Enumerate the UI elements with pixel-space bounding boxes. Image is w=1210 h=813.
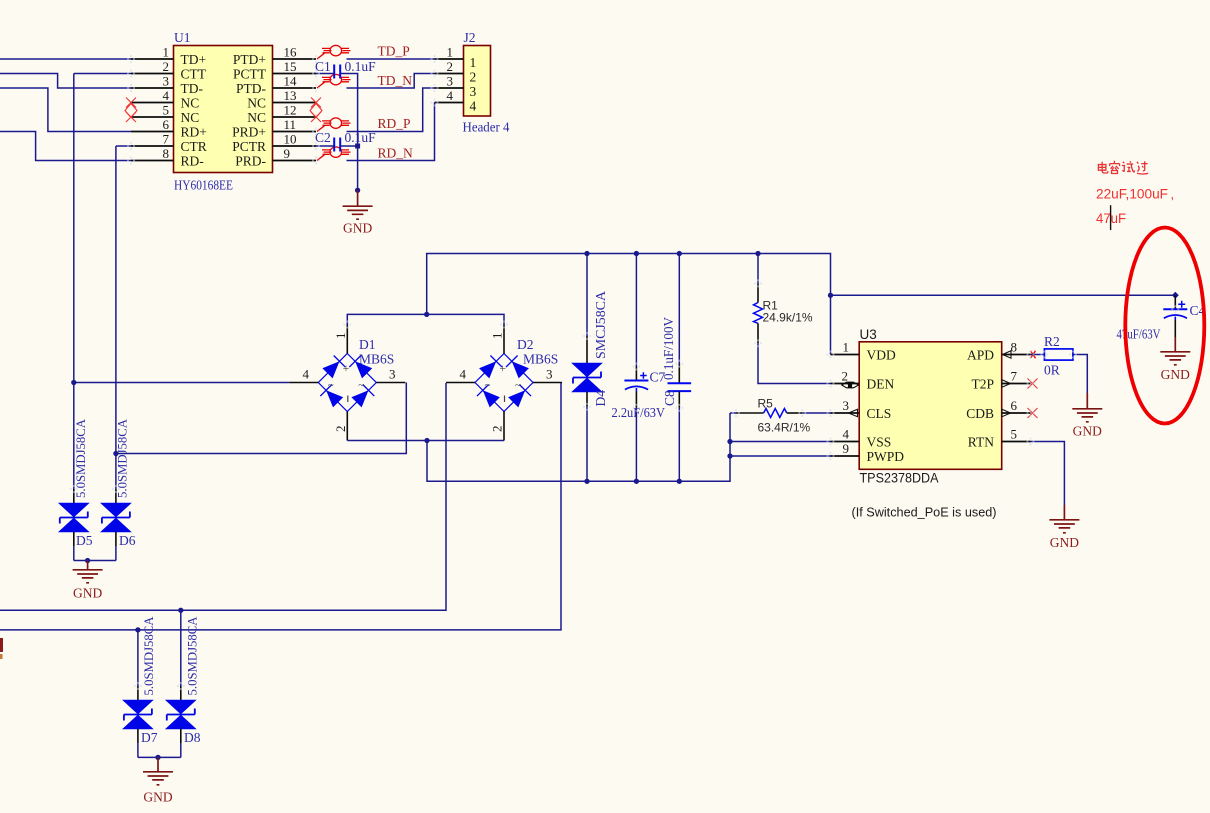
svg-text:NC: NC [247, 95, 266, 110]
ferrite jumper on TD_N line [317, 74, 351, 88]
svg-text:GND: GND [1073, 424, 1102, 439]
connector J2 body [464, 46, 491, 117]
svg-text:C8: C8 [662, 390, 677, 406]
red annotation ellipse [1125, 228, 1204, 424]
ground GND1 under C1 C2 [343, 190, 373, 235]
svg-text:PTD-: PTD- [236, 81, 267, 96]
svg-text:5.0SMDJ58CA: 5.0SMDJ58CA [141, 616, 156, 696]
wire VSS row [730, 441, 831, 443]
capacitor C2 plates [334, 138, 340, 152]
svg-text:15: 15 [284, 59, 297, 74]
U1 right pin names [232, 52, 267, 169]
svg-text:3: 3 [470, 84, 477, 99]
capacitor C7 electrolytic [624, 254, 648, 482]
svg-text:1: 1 [333, 333, 348, 340]
junction R1 top [755, 251, 760, 256]
junction PWPD [727, 453, 732, 458]
resistor R2 body [1044, 349, 1073, 360]
svg-text:9: 9 [284, 146, 291, 161]
no-ERC diamond between pins 13,12 [310, 104, 322, 118]
svg-text:C1: C1 [315, 59, 331, 74]
svg-text:4: 4 [303, 367, 310, 382]
svg-text:TPS2378DDA: TPS2378DDA [860, 471, 939, 486]
bridge rectifier D2 [446, 325, 562, 441]
svg-text:HY60168EE: HY60168EE [174, 178, 233, 193]
svg-text:9: 9 [843, 441, 850, 456]
svg-text:RD_P: RD_P [378, 116, 411, 131]
svg-text:D5: D5 [76, 533, 93, 548]
capacitor C1 plates [334, 65, 340, 79]
J2 inside pin names [470, 55, 477, 114]
svg-text:GND: GND [143, 790, 172, 805]
U3 CDB pin arrow [1002, 409, 1011, 416]
junction C8 bottom [677, 479, 682, 484]
svg-text:TD+: TD+ [181, 52, 207, 67]
U3 APD pin arrow [1003, 351, 1012, 358]
svg-text:16: 16 [284, 45, 298, 60]
IC U1 body [174, 46, 273, 173]
U3 left pin stubs [831, 355, 860, 457]
svg-text:T2P: T2P [971, 376, 994, 391]
junction C7 top [634, 251, 639, 256]
svg-text:1: 1 [470, 55, 477, 70]
svg-text:2: 2 [490, 426, 505, 433]
svg-text:NC: NC [247, 110, 266, 125]
svg-text:R5: R5 [758, 397, 774, 411]
svg-text:5.0SMDJ58CA: 5.0SMDJ58CA [73, 418, 88, 498]
svg-text:0.1uF/100V: 0.1uF/100V [661, 317, 676, 380]
svg-text:GND: GND [73, 586, 102, 601]
no-ERC diamond between pins 4,5 [125, 104, 137, 118]
svg-text:GND: GND [1050, 535, 1079, 550]
ferrite jumper on TD_P line [317, 45, 351, 59]
wire TD+ pin1 to left edge [0, 58, 131, 60]
svg-text:CLS: CLS [867, 406, 892, 421]
U1 left pin numbers [163, 45, 170, 162]
wire TD_P jumper to J2 pin1 [347, 58, 435, 60]
svg-text:TD-: TD- [181, 81, 204, 96]
junction VSS [727, 439, 732, 444]
wire TD- pin3 jog to left edge [0, 74, 131, 89]
wire RD- pin8 jog to left edge [0, 132, 131, 161]
svg-text:14: 14 [284, 74, 298, 89]
U1 right pins 16-9 stubs [273, 59, 317, 161]
wire RTN to GND5 [1031, 442, 1065, 506]
svg-text:TD_P: TD_P [378, 44, 410, 59]
no-ERC X on U1 pin 4 [126, 98, 136, 108]
svg-text:2: 2 [163, 59, 170, 74]
svg-text:0.1uF: 0.1uF [345, 59, 377, 74]
svg-text:1: 1 [447, 45, 454, 60]
svg-text:1: 1 [163, 45, 170, 60]
svg-text:APD: APD [967, 347, 994, 362]
capacitor C4 electrolytic [1163, 295, 1187, 337]
wire RD+ pin6 jog to left edge [0, 88, 131, 132]
wire CTT pin2 to vertical [74, 73, 131, 75]
U1 left pin names [181, 52, 207, 169]
ground GND4 under R2 [1072, 393, 1102, 439]
svg-text:3: 3 [163, 74, 170, 89]
svg-text:3: 3 [843, 398, 850, 413]
svg-text:D8: D8 [184, 730, 201, 745]
junction D1 pin4 wire on CTT vertical [71, 380, 76, 385]
wire pin2 bus down to bottom bus [427, 413, 730, 481]
svg-text:D1: D1 [359, 337, 376, 352]
svg-text:J2: J2 [464, 30, 476, 45]
svg-text:NC: NC [181, 110, 200, 125]
wire top bus [427, 254, 831, 355]
wire pin15 to C1 [316, 73, 334, 75]
svg-text:0.1uF: 0.1uF [345, 130, 377, 145]
svg-text:PRD+: PRD+ [232, 124, 266, 139]
wire D1 pin4 to CTT vertical [74, 382, 289, 384]
junction top bus left leg [424, 312, 429, 317]
svg-text:PCTR: PCTR [232, 139, 266, 154]
red note line1 Chinese: dian [1098, 162, 1107, 173]
svg-text:R2: R2 [1044, 334, 1060, 349]
svg-text:D7: D7 [141, 730, 158, 745]
junction at GND1 [355, 188, 360, 193]
svg-text:GND: GND [1161, 367, 1190, 382]
junction at GND2 [85, 558, 90, 563]
junction D7 on wire2 [135, 627, 140, 632]
wire RD_N jumper to J2 pin4 [347, 103, 435, 161]
svg-text:D2: D2 [517, 337, 534, 352]
U3 DEN pin input arrow [842, 382, 859, 388]
svg-text:8: 8 [163, 146, 170, 161]
wire PWPD row [730, 455, 831, 457]
svg-text:4: 4 [460, 367, 467, 382]
TVS diode D6 [101, 489, 130, 561]
J2 outside pin numbers [447, 45, 454, 104]
svg-text:CTR: CTR [181, 139, 207, 154]
svg-text:NC: NC [181, 95, 200, 110]
no-ERC X on T2P [1028, 379, 1038, 389]
junction C2 to vertical [355, 144, 360, 149]
junction C4 top diamond [1172, 292, 1179, 299]
svg-text:24.9k/1%: 24.9k/1% [763, 311, 813, 325]
red note line1 Chinese: shi [1122, 161, 1135, 172]
svg-text:PCTT: PCTT [233, 66, 267, 81]
no-ERC X on U1 pin 13 [311, 98, 321, 108]
junction C8 top [677, 251, 682, 256]
wire CTR vertical down to D6 [115, 146, 117, 489]
red note line1 Chinese: guo [1137, 161, 1148, 174]
svg-text:CTT: CTT [181, 66, 207, 81]
svg-text:RD-: RD- [181, 153, 205, 168]
U3 CLS pin arrow [849, 409, 858, 416]
svg-text:Header 4: Header 4 [463, 120, 510, 135]
ground GND5 under RTN [1049, 505, 1079, 550]
junction VDD branch [828, 293, 833, 298]
svg-text:D4: D4 [593, 390, 608, 407]
junction D4 bottom [584, 479, 589, 484]
svg-text:7: 7 [1011, 369, 1018, 384]
wire C1 to GND vertical [340, 74, 357, 190]
wire TD_N jumper to J2 pin2 [347, 74, 435, 89]
svg-text:4: 4 [470, 99, 477, 114]
svg-text:2: 2 [842, 369, 849, 384]
svg-text:3: 3 [447, 74, 454, 89]
svg-text:PRD-: PRD- [235, 153, 266, 168]
capacitor C8 [668, 254, 692, 482]
text cursor mark [1110, 205, 1112, 230]
wire pin10 to C2 [316, 145, 334, 147]
svg-text:RD_N: RD_N [378, 146, 414, 161]
ground GND3 under D7 D8 [143, 757, 173, 804]
svg-text:RD+: RD+ [181, 124, 207, 139]
wire RD_P jumper to J2 pin3 [347, 88, 435, 132]
svg-text:10: 10 [284, 132, 297, 147]
U1 left pins 1-8 stubs [131, 59, 174, 161]
svg-text:4: 4 [447, 88, 454, 103]
junction on pin2 bus [424, 438, 429, 443]
svg-text:6: 6 [163, 117, 170, 132]
svg-text:GND: GND [343, 221, 372, 236]
svg-text:VSS: VSS [867, 434, 892, 449]
U3 right pin numbers [1011, 340, 1018, 442]
wire C2 to GND vertical [340, 145, 357, 147]
junction D8 on wire1 [178, 608, 183, 613]
junction C7 bottom [634, 479, 639, 484]
svg-text:13: 13 [284, 88, 297, 103]
no-ERC X on U1 pin 12 [311, 112, 321, 122]
svg-text:2: 2 [333, 426, 348, 433]
svg-text:22uF,100uF: 22uF,100uF [1096, 186, 1168, 202]
TVS diode D7 [123, 630, 152, 758]
U3 right pin names [966, 347, 994, 449]
U3 T2P pin arrow [1002, 380, 1011, 387]
power port sliver at left edge [0, 638, 3, 659]
svg-text:2: 2 [447, 59, 454, 74]
svg-text:4: 4 [163, 88, 170, 103]
svg-text:2.2uF/63V: 2.2uF/63V [612, 405, 666, 420]
wire CTT vertical down to D5 [73, 74, 75, 490]
svg-text:U1: U1 [174, 30, 191, 45]
junction D4 top [584, 251, 589, 256]
junction D1 pin3 wire on CTR vertical [113, 451, 118, 456]
wire D1 pin2 to D2 pin2 [347, 440, 504, 442]
red note line1 Chinese: rong [1110, 161, 1120, 174]
wire R2 to GND4 [1073, 355, 1087, 394]
svg-text:VDD: VDD [867, 347, 896, 362]
svg-text:MB6S: MB6S [359, 352, 394, 367]
junction at GND3 [155, 755, 160, 760]
U3 left pin names [867, 347, 905, 464]
svg-text:0R: 0R [1044, 363, 1060, 378]
svg-text:(If Switched_PoE is used): (If Switched_PoE is used) [852, 506, 997, 520]
U3 left pin numbers [842, 340, 850, 457]
svg-text:MB6S: MB6S [523, 352, 558, 367]
wire 1 lower-left horizontal bus to D2 pin4 [0, 383, 446, 610]
J2 pin stubs 1-4 [435, 59, 464, 103]
small red marks on APD stub [1031, 351, 1036, 358]
resistor R1 [754, 254, 831, 384]
ferrite jumper on RD_P line [317, 118, 351, 132]
wire VDD branch to C4 [831, 294, 1176, 296]
ground GND2 under D5 D6 [73, 561, 103, 601]
no-ERC X on CDB [1028, 408, 1038, 418]
svg-text:7: 7 [163, 132, 170, 147]
svg-text:,: , [1171, 187, 1175, 202]
ferrite jumper on RD_N line [317, 147, 351, 161]
svg-text:D6: D6 [119, 533, 136, 548]
TVS diode D5 [59, 489, 88, 561]
no-ERC X on U1 pin 5 [126, 112, 136, 122]
svg-text:PTD+: PTD+ [233, 52, 266, 67]
svg-text:12: 12 [284, 103, 297, 118]
svg-text:47uF/63V: 47uF/63V [1117, 327, 1161, 342]
wire 2 lower-left horizontal bus to D2 pin3 [0, 383, 561, 630]
svg-text:1: 1 [843, 340, 850, 355]
U3 right pin stubs [1002, 355, 1031, 442]
svg-text:DEN: DEN [867, 376, 895, 391]
svg-text:RTN: RTN [968, 434, 994, 449]
bridge rectifier D1 [289, 325, 405, 441]
wire joining D7 D8 bottoms [138, 756, 181, 758]
svg-text:63.4R/1%: 63.4R/1% [758, 421, 811, 435]
svg-text:3: 3 [389, 367, 396, 382]
svg-text:3: 3 [546, 367, 553, 382]
IC U3 body [859, 342, 1002, 470]
wire APD to R2 [1031, 354, 1045, 356]
TVS diode D4 [572, 254, 601, 482]
wire joining D5 D6 bottoms [74, 560, 116, 562]
wire CTR pin7 to vertical [116, 145, 131, 147]
svg-text:CDB: CDB [966, 406, 994, 421]
svg-text:1: 1 [490, 333, 505, 340]
svg-text:4: 4 [843, 427, 850, 442]
wire D1 pin1 to D2 pin1 [347, 314, 504, 324]
wire D1 pin3 down and left to CTR vertical [116, 383, 406, 454]
svg-text:TD_N: TD_N [378, 73, 413, 88]
svg-text:11: 11 [284, 117, 297, 132]
svg-text:U3: U3 [860, 327, 877, 342]
TVS diode D8 [166, 610, 195, 757]
svg-text:5: 5 [1011, 427, 1018, 442]
svg-text:6: 6 [1011, 398, 1018, 413]
svg-text:2: 2 [470, 70, 477, 85]
U1 right pin numbers [284, 45, 298, 162]
svg-text:5.0SMDJ58CA: 5.0SMDJ58CA [185, 616, 200, 696]
svg-text:C2: C2 [315, 130, 331, 145]
svg-text:SMCJ58CA: SMCJ58CA [593, 291, 608, 359]
ground GND6 under C4 [1160, 337, 1190, 382]
svg-text:PWPD: PWPD [867, 449, 905, 464]
resistor R5 [730, 409, 831, 418]
svg-text:5: 5 [163, 103, 170, 118]
